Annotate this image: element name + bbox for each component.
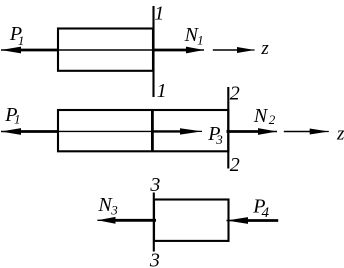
- svg-text:4: 4: [262, 205, 270, 221]
- svg-text:z: z: [336, 124, 344, 145]
- svg-text:z: z: [260, 38, 269, 59]
- svg-text:2: 2: [230, 83, 240, 105]
- svg-text:N: N: [253, 105, 269, 127]
- svg-text:1: 1: [14, 112, 21, 127]
- svg-text:3: 3: [110, 202, 118, 217]
- svg-text:1: 1: [18, 33, 25, 48]
- svg-text:2: 2: [230, 154, 240, 176]
- svg-text:3: 3: [149, 174, 160, 196]
- svg-text:1: 1: [157, 80, 167, 102]
- svg-text:2: 2: [269, 112, 276, 127]
- svg-text:3: 3: [149, 249, 160, 268]
- svg-text:1: 1: [197, 32, 204, 47]
- svg-text:1: 1: [154, 3, 164, 25]
- svg-text:3: 3: [215, 132, 223, 147]
